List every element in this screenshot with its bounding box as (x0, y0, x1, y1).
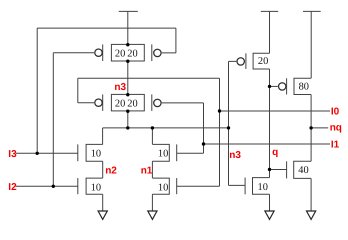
pmos pair P2 box "20 20" (111, 94, 144, 111)
gate bar N2a (77, 144, 79, 161)
node dot I0 (218, 109, 221, 112)
svg-text:10: 10 (158, 182, 168, 193)
gate bar N3 (244, 178, 246, 195)
node dot n3 at inverter input (227, 126, 230, 129)
wire n3 to middle nmos stack (151, 128, 153, 144)
nmos N2b box "10" (left lower, gate I2) (86, 178, 103, 194)
node dot q at N4 gate (268, 168, 271, 171)
node dot P2 top (126, 93, 129, 96)
bubble P1 right (154, 49, 161, 56)
gate bar N4 (286, 161, 288, 178)
label n3 (between P1 and P2) (114, 82, 126, 93)
svg-text:20: 20 (115, 99, 125, 110)
value 10 (N1b) (158, 182, 168, 193)
gate bar N1b (176, 178, 178, 194)
svg-text:20: 20 (115, 49, 125, 60)
bubble P3 (237, 58, 244, 65)
gate bar P2 left (I0) (102, 94, 104, 111)
svg-text:10: 10 (91, 182, 101, 193)
nmos N1a box "10" (middle upper, gate I1) (152, 144, 169, 161)
node dot n3 at middle stack (151, 126, 154, 129)
node dot P2 bottom (126, 110, 129, 113)
svg-text:I3: I3 (8, 149, 17, 160)
node dot I3 (36, 152, 39, 155)
wire n3 horizontal bus (103, 127, 229, 129)
power VDD2 (261, 11, 278, 53)
svg-text:10: 10 (258, 182, 268, 193)
wire I2 net: label to left gate, up to P1 left gate (16, 53, 94, 187)
gate bar N1a (176, 144, 178, 161)
svg-text:n2: n2 (105, 166, 117, 177)
wire n3 elbow to left nmos stack (102, 128, 104, 144)
svg-text:20: 20 (127, 49, 137, 60)
node dot I2 (52, 185, 55, 188)
ground N4 (307, 211, 316, 219)
wire middle stack to ground (151, 194, 153, 211)
svg-text:n3: n3 (229, 150, 241, 161)
svg-text:80: 80 (299, 82, 309, 93)
value 20 (P3) (258, 56, 268, 67)
label I3 (8, 149, 17, 160)
pmos P4 box "80" (294, 78, 311, 94)
svg-text:20: 20 (127, 99, 137, 110)
wire N4 source to ground (310, 178, 312, 211)
nmos N3 box "10" (q inverter pulldown) (253, 178, 270, 195)
bubble P2 right (154, 99, 161, 106)
label n2 (105, 166, 117, 177)
wire I3 net: label to left gate, up and over to P1 right gate (16, 28, 176, 153)
wire n3 to P3 gate and N3 gate (229, 61, 246, 185)
node dot P1 bottom (126, 60, 129, 63)
wire n1 between middle nmos (151, 161, 153, 178)
wire q to N4 gate (270, 169, 287, 171)
svg-text:10: 10 (91, 149, 101, 160)
svg-text:I0: I0 (331, 107, 340, 118)
label I0 (331, 107, 340, 118)
ground left stack (98, 211, 107, 219)
node dot n3 at P2 drain (126, 126, 129, 129)
wire q to P4 gate bubble (270, 85, 278, 87)
gate bar P1 right (I3) (151, 44, 153, 61)
wire P2 drain to n3 bus (127, 111, 129, 128)
wire nq stub to label (311, 127, 328, 129)
pmos pair P1 box "20 20" (111, 44, 144, 61)
svg-text:n1: n1 (141, 166, 153, 177)
svg-text:q: q (272, 147, 278, 158)
value 10 (N2b) (91, 182, 101, 193)
label nq (330, 123, 342, 134)
gate bar N2b (77, 178, 79, 194)
value 20 20 (P1) (115, 49, 138, 60)
bubble P4 (279, 83, 286, 90)
label q (272, 147, 278, 158)
svg-text:n3: n3 (114, 82, 126, 93)
bubble P2 left (95, 99, 102, 106)
nmos N4 box "40" (294, 161, 311, 178)
svg-text:I2: I2 (8, 182, 17, 193)
power VDD3 (303, 11, 321, 78)
gate bar P2 right (I1) (151, 94, 153, 111)
label I2 (8, 182, 17, 193)
gate bar P3 (245, 53, 247, 69)
node dot I1 (202, 142, 205, 145)
wire q vertical: P3 drain down to N3 drain (269, 69, 271, 178)
node dot q at P4 gate (268, 85, 271, 88)
label n3 (at inverter input wire) (229, 150, 241, 161)
power VDD1 (119, 11, 138, 44)
value 20 20 (P2) (115, 99, 138, 110)
bubble P1 left (95, 49, 102, 56)
svg-text:I1: I1 (331, 140, 340, 151)
value 40 (N4) (298, 165, 308, 176)
value 10 (N1a) (158, 149, 168, 160)
wire left stack to ground (102, 194, 104, 211)
wire n2 between left nmos (102, 161, 104, 178)
value 10 (N2a) (91, 149, 101, 160)
gate bar P4 (286, 78, 288, 94)
label n1 (141, 166, 153, 177)
wire n3 vertical P1 to P2 (127, 61, 129, 94)
nmos N2a box "10" (left upper, gate I3) (86, 144, 103, 161)
pmos P3 box "20" (q driver) (253, 53, 269, 69)
wire I1 net: line from label, elbows to P2 right gate and middle upper gate (162, 103, 330, 153)
value 10 (N3) (258, 182, 268, 193)
node dot P1 top (126, 43, 129, 46)
svg-text:20: 20 (258, 56, 268, 67)
nmos N1b box "10" (middle lower, gate I0) (152, 178, 169, 194)
wire N3 source to ground (269, 194, 271, 211)
svg-text:40: 40 (298, 165, 308, 176)
value 80 (P4) (299, 82, 309, 93)
gate bar P1 left (I2) (102, 44, 104, 61)
ground N3 (265, 211, 274, 219)
label I1 (331, 140, 340, 151)
wire I0 net: line from label, elbows to P2 left gate and middle lower gate (78, 78, 330, 186)
node dot nq at P4/N4 (309, 126, 312, 129)
wire P4 drain down to N4 (310, 95, 312, 162)
svg-text:10: 10 (158, 149, 168, 160)
svg-text:nq: nq (330, 123, 342, 134)
ground middle stack (148, 211, 157, 219)
